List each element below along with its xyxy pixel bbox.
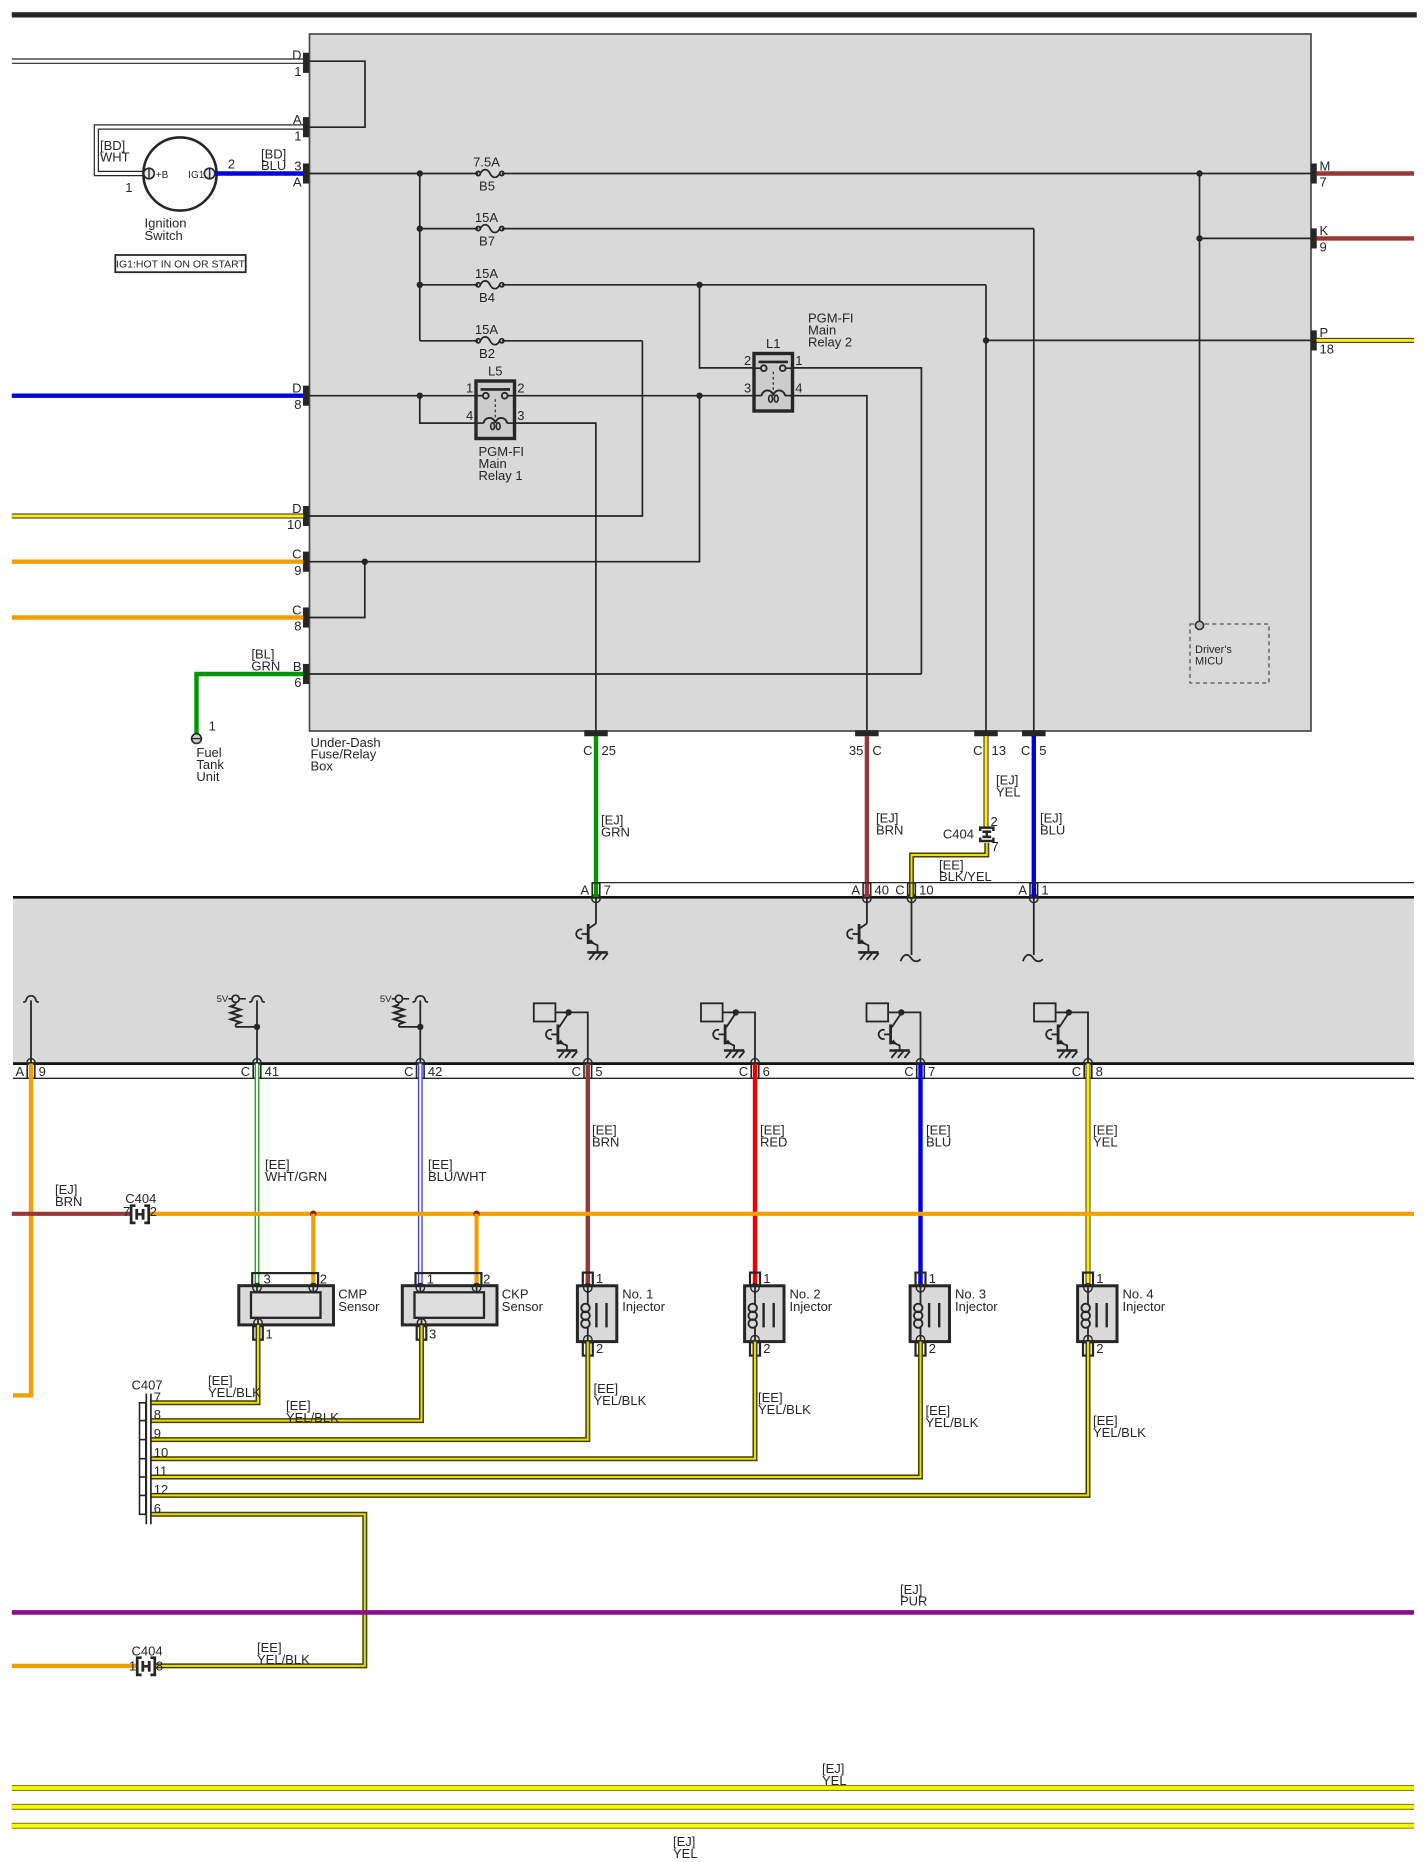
svg-text:B4: B4 <box>479 290 495 305</box>
label [EE] RED <box>760 1123 787 1150</box>
wire (K row) <box>1200 237 1312 239</box>
CMP sensor bottom pin 1 <box>253 1326 273 1341</box>
svg-text:10: 10 <box>287 517 301 532</box>
ignition switch body <box>143 137 216 210</box>
svg-text:1: 1 <box>266 1327 273 1342</box>
svg-text:YEL: YEL <box>673 1846 698 1861</box>
wire 35C brown (EJ BRN) <box>865 736 869 883</box>
wire D10 yellow <box>12 514 303 519</box>
resistor (pull-up, C41) <box>231 1003 241 1027</box>
label [EJ] BLU <box>1040 810 1065 837</box>
node junction (bus row3) <box>417 282 423 288</box>
svg-text:Sensor: Sensor <box>338 1299 380 1314</box>
svg-text:1: 1 <box>763 1271 770 1286</box>
svg-text:4: 4 <box>466 408 473 423</box>
svg-text:Injector: Injector <box>790 1299 833 1314</box>
svg-text:1: 1 <box>596 1271 603 1286</box>
injector No.2 top pin 1 <box>750 1271 770 1286</box>
label [EE] BLK/YEL <box>939 857 992 884</box>
wire (P row) <box>986 339 1311 341</box>
wire (B7 row) <box>420 228 478 230</box>
label [EE] YEL/BLK (CMP) <box>208 1373 261 1400</box>
svg-text:A: A <box>581 883 590 898</box>
svg-text:C: C <box>973 743 982 758</box>
relay L5 caption <box>479 444 525 483</box>
injector No.4 top pin 1 <box>1083 1271 1103 1286</box>
connector pin C13 (fuse box bottom) <box>973 731 1006 759</box>
svg-text:C: C <box>404 1064 413 1079</box>
connector C404 (bottom, inline) <box>129 1643 163 1675</box>
wire orange rail <box>149 1212 1414 1216</box>
label [EJ] BRN <box>876 810 903 837</box>
wire (A9 internal) <box>23 996 39 1063</box>
logic gate box (driver Q4) <box>701 1003 723 1021</box>
wire (C9 row to relay coil node) <box>309 396 700 562</box>
connector pin C8 (ECM/PCM bottom) <box>1072 1059 1103 1079</box>
wire C8 yellow (EE YEL) <box>1086 1064 1091 1287</box>
connector pin 3A (under-dash fuse/relay box) <box>293 158 309 189</box>
svg-text:YEL/BLK: YEL/BLK <box>1093 1425 1146 1440</box>
label [EE] YEL/BLK (bottom) <box>257 1640 310 1667</box>
connector pin C8 (under-dash fuse/relay box) <box>292 602 309 633</box>
svg-text:1: 1 <box>1096 1271 1103 1286</box>
node junction (MICU column K row) <box>1196 235 1202 241</box>
connector pin C9 (under-dash fuse/relay box) <box>292 547 309 578</box>
wire EJ YEL rail 3 <box>12 1823 1414 1829</box>
ground <box>858 952 879 959</box>
svg-text:2: 2 <box>150 1204 157 1219</box>
wire (B6 row) <box>309 673 922 675</box>
label [EE] YEL/BLK (inj2) <box>758 1390 811 1417</box>
svg-text:C: C <box>572 1064 581 1079</box>
wire EJ PUR purple <box>12 1610 1414 1615</box>
IG1 note box <box>115 255 245 272</box>
injector No.2 body <box>745 1284 784 1344</box>
wire (B4 row) <box>420 284 478 286</box>
label [EJ] YEL (lower) <box>673 1834 698 1861</box>
connector pin A40 (ECM/PCM top) <box>851 883 889 903</box>
wire (ECM internal from pin down) <box>595 898 597 923</box>
svg-text:A: A <box>1018 883 1027 898</box>
wire (resistor to pin C41) <box>236 1026 257 1028</box>
wire injector3 pin2 YEL/BLK to C407 pin11 <box>152 1342 921 1477</box>
wire (C13 column) <box>985 285 987 731</box>
wire (B7 to fuse box pin C5 column) <box>1033 229 1035 731</box>
transistor Q4 (injector driver NPN) <box>713 1013 736 1050</box>
svg-text:6: 6 <box>763 1064 770 1079</box>
svg-text:BLU/WHT: BLU/WHT <box>428 1169 487 1184</box>
svg-text:1: 1 <box>294 128 301 143</box>
label [EE] YEL/BLK (inj1) <box>594 1381 647 1408</box>
svg-text:6: 6 <box>154 1501 161 1516</box>
svg-text:YEL/BLK: YEL/BLK <box>594 1393 647 1408</box>
wire C13 yellow (EJ YEL) <box>984 736 989 828</box>
connector pin A9 (ECM/PCM bottom) <box>16 1059 46 1079</box>
wire CKP pin3 YEL/BLK to C407 pin8 <box>152 1325 422 1420</box>
wire (B2 row) <box>420 340 478 342</box>
svg-text:1: 1 <box>795 353 802 368</box>
svg-text:1: 1 <box>1041 883 1048 898</box>
wire C404 to C10 (EE BLK/YEL) <box>912 843 987 883</box>
svg-text:7: 7 <box>1320 175 1327 190</box>
svg-text:Injector: Injector <box>1123 1299 1166 1314</box>
svg-text:C: C <box>1072 1064 1081 1079</box>
svg-text:YEL: YEL <box>996 784 1021 799</box>
injector No.4 bottom pin 2 <box>1083 1341 1103 1356</box>
wire C8 orange <box>12 615 303 619</box>
node junction (C42) <box>417 1024 423 1030</box>
svg-text:BLU: BLU <box>1040 822 1065 837</box>
connector pin C25 (fuse box bottom) <box>583 731 616 759</box>
svg-text:YEL/BLK: YEL/BLK <box>286 1410 339 1425</box>
wire orange drop to CKP pin2 <box>475 1214 479 1286</box>
CKP sensor connector bracket <box>416 1273 482 1286</box>
svg-text:Switch: Switch <box>145 228 183 243</box>
node junction (CKP tap) <box>473 1211 480 1218</box>
wire EJ YEL rail 1 <box>12 1785 1414 1791</box>
connector C407 <box>132 1377 169 1524</box>
connector C404 (top, inline) <box>943 814 999 854</box>
svg-text:15A: 15A <box>475 210 498 225</box>
ECM bottom connector strip line <box>13 1077 1414 1079</box>
svg-text:C: C <box>241 1064 250 1079</box>
fuse B7 15A <box>475 210 504 249</box>
node junction (Q5) <box>898 1009 904 1015</box>
svg-text:A: A <box>851 883 860 898</box>
svg-text:GRN: GRN <box>251 659 280 674</box>
ECM top connector strip line <box>592 882 1414 884</box>
svg-text:1: 1 <box>294 64 301 79</box>
svg-text:L5: L5 <box>488 364 502 379</box>
svg-text:11: 11 <box>154 1464 168 1479</box>
svg-text:BRN: BRN <box>592 1135 619 1150</box>
node junction (bus row2) <box>417 225 423 231</box>
wire (B4 branch down to L1 pin2) <box>700 285 755 368</box>
transistor Q2 (A40 relay driver) (NPN driver) <box>847 924 868 953</box>
logic gate box (driver Q6) <box>1034 1003 1056 1021</box>
wire K9 red (to right) <box>1317 236 1415 240</box>
CKP sensor bottom pin 3 <box>417 1326 437 1341</box>
svg-text:WHT: WHT <box>100 150 130 165</box>
wire C41 white/green (EE WHT/GRN) <box>255 1064 260 1286</box>
svg-text:13: 13 <box>992 743 1006 758</box>
connector C404 (middle, inline) <box>123 1191 157 1223</box>
node junction (MICU column tap row1) <box>1196 170 1202 176</box>
label [EE] BRN <box>592 1123 619 1150</box>
wire C6 red (EE RED) <box>753 1064 757 1287</box>
svg-text:C: C <box>872 743 881 758</box>
wire D8 blue <box>12 394 303 398</box>
Driver's MICU terminal circle <box>1195 621 1203 629</box>
wire (gate to node) <box>1056 1011 1069 1013</box>
svg-text:8: 8 <box>294 619 301 634</box>
connector pin 35C (fuse box bottom) <box>849 731 882 759</box>
connector pin C41 (ECM/PCM bottom) <box>241 1059 279 1079</box>
wire (D8 row to relay L5 pin1) <box>309 395 476 397</box>
svg-text:C: C <box>904 1064 913 1079</box>
wire orange drop to CMP pin2 <box>311 1214 315 1286</box>
CMP sensor connector bracket <box>252 1273 318 1286</box>
svg-text:5: 5 <box>1039 743 1046 758</box>
wire EJ YEL rail 2 <box>12 1804 1414 1810</box>
connector pin A7 (ECM/PCM top) <box>581 883 611 903</box>
node junction (B4 to relay2 tap) <box>696 282 702 288</box>
ECM/PCM band <box>13 897 1414 1063</box>
wire (ECM internal from pin down) <box>866 898 868 923</box>
wire (resistor to pin C42) <box>399 1026 420 1028</box>
wire B6 green (BL GRN) <box>197 674 304 734</box>
svg-text:3: 3 <box>744 381 751 396</box>
ECM/PCM top edge <box>13 896 1414 899</box>
wire (L1 pin1 to B6 column) <box>791 368 922 674</box>
svg-text:A: A <box>293 175 302 190</box>
svg-text:IG1:HOT IN ON OR START: IG1:HOT IN ON OR START <box>116 258 246 270</box>
node junction (Q4) <box>733 1009 739 1015</box>
svg-text:Box: Box <box>311 758 334 773</box>
svg-text:YEL/BLK: YEL/BLK <box>926 1415 979 1430</box>
svg-text:9: 9 <box>1320 240 1327 255</box>
svg-text:9: 9 <box>39 1064 46 1079</box>
svg-text:10: 10 <box>154 1445 168 1460</box>
injector No.3 body <box>910 1284 949 1344</box>
svg-text:C: C <box>292 547 301 562</box>
connector pin A1 (ECM/PCM top) <box>1018 883 1048 903</box>
svg-text:BLU: BLU <box>926 1135 951 1150</box>
svg-text:12: 12 <box>154 1482 168 1497</box>
ground (Q6 emitter) <box>1057 1051 1078 1058</box>
node junction (relay row C9 tap) <box>696 393 702 399</box>
svg-text:D: D <box>292 381 301 396</box>
svg-text:B: B <box>293 659 302 674</box>
fuel tank unit terminal <box>192 734 202 744</box>
fuse B4 15A <box>475 266 504 305</box>
injector No.4 body <box>1078 1284 1117 1344</box>
label [EE] WHT/GRN <box>265 1157 327 1184</box>
CKP sensor label <box>502 1287 544 1314</box>
svg-text:C: C <box>739 1064 748 1079</box>
wire C5 brown (EE BRN) <box>586 1064 590 1287</box>
node junction (D8 bus) <box>417 393 423 399</box>
wire (internal C42 pin) <box>413 996 429 1063</box>
svg-text:8: 8 <box>156 1659 163 1674</box>
page top border bar <box>12 12 1417 17</box>
svg-text:2: 2 <box>596 1341 603 1356</box>
svg-text:Sensor: Sensor <box>502 1299 544 1314</box>
Under-Dash Fuse/Relay Box label <box>311 735 381 774</box>
injector No.2 bottom pin 2 <box>750 1341 770 1356</box>
connector pin M7 (fuse box right side) <box>1311 158 1330 189</box>
svg-text:RED: RED <box>760 1135 787 1150</box>
wire CMP pin1 YEL/BLK to C407 pin7 <box>152 1325 259 1403</box>
svg-text:10: 10 <box>919 883 933 898</box>
svg-text:+B: +B <box>156 170 169 181</box>
connector pin C42 (ECM/PCM bottom) <box>404 1059 442 1079</box>
resistor (pull-up, C42) <box>394 1003 404 1027</box>
wire D1 white (BD WHT) <box>12 59 303 63</box>
ignition switch label <box>145 216 187 243</box>
svg-text:1: 1 <box>466 381 473 396</box>
wire EJ BRN horizontal <box>12 1212 131 1216</box>
wire (MICU column) <box>1199 174 1201 622</box>
svg-text:15A: 15A <box>475 266 498 281</box>
connector pin B6 (under-dash fuse/relay box) <box>293 659 309 690</box>
svg-text:2: 2 <box>744 353 751 368</box>
fuse B5 7.5A <box>473 155 504 194</box>
wire (ignition feed row to fuse B5 and pin M7) <box>309 173 479 175</box>
wire A9 orange <box>13 1064 31 1396</box>
svg-text:9: 9 <box>294 563 301 578</box>
wire M7 red (to right) <box>1317 171 1415 175</box>
wire C25 green (EJ GRN) <box>594 736 598 883</box>
Driver's MICU dashed box <box>1190 624 1269 683</box>
wire (L1 coil pin4 to 35C column) <box>791 396 867 731</box>
svg-text:Driver's: Driver's <box>1195 644 1232 656</box>
logic gate box (driver Q3) <box>534 1003 556 1021</box>
svg-text:18: 18 <box>1320 342 1334 357</box>
connector pin D8 (under-dash fuse/relay box) <box>292 381 309 412</box>
connector pin C5 (ECM/PCM bottom) <box>572 1059 603 1079</box>
svg-text:8: 8 <box>1096 1064 1103 1079</box>
svg-text:C: C <box>895 883 904 898</box>
node junction (P row tap) <box>983 337 989 343</box>
svg-text:YEL/BLK: YEL/BLK <box>208 1385 261 1400</box>
label [EE] YEL <box>1093 1123 1118 1150</box>
svg-text:35: 35 <box>849 743 863 758</box>
svg-text:7: 7 <box>604 883 611 898</box>
svg-text:YEL: YEL <box>822 1773 847 1788</box>
svg-text:IG1: IG1 <box>188 170 205 181</box>
Under-Dash Fuse/Relay Box <box>310 34 1312 731</box>
injector No.3 label <box>955 1287 998 1314</box>
wire A1 white loop (BD WHT) to ignition +B <box>94 125 303 176</box>
svg-text:PUR: PUR <box>900 1594 927 1609</box>
wire P18 yellow (to right) <box>1317 338 1415 343</box>
label [EJ] YEL (upper) <box>822 1761 847 1788</box>
svg-text:1: 1 <box>929 1271 936 1286</box>
label [BD] BLU <box>261 146 286 173</box>
svg-text:BRN: BRN <box>876 822 903 837</box>
svg-text:5: 5 <box>595 1064 602 1079</box>
svg-text:YEL/BLK: YEL/BLK <box>257 1652 310 1667</box>
svg-text:BLK/YEL: BLK/YEL <box>939 869 992 884</box>
svg-text:BRN: BRN <box>55 1194 82 1209</box>
wire C407 pin6 YEL/BLK to C404 <box>152 1514 365 1666</box>
wire C7 blue (EE BLU) <box>918 1064 922 1287</box>
wire C9 orange <box>12 560 303 564</box>
wire C10 blkyel pin crossing <box>909 884 914 897</box>
CKP sensor body <box>402 1284 497 1328</box>
wire (A1 internal) <box>1023 898 1043 961</box>
svg-text:2: 2 <box>517 381 524 396</box>
transistor Q1 (A7 relay driver) (NPN driver) <box>576 924 597 953</box>
svg-text:7: 7 <box>992 839 999 854</box>
svg-text:WHT/GRN: WHT/GRN <box>265 1169 327 1184</box>
node junction (bus tap row1) <box>417 170 423 176</box>
svg-text:7: 7 <box>928 1064 935 1079</box>
wire injector2 pin2 YEL/BLK to C407 pin10 <box>152 1342 756 1459</box>
injector No.1 body <box>577 1284 616 1344</box>
wire (L5 pin2 to L1 pin3 row) <box>515 395 755 397</box>
svg-text:25: 25 <box>602 743 616 758</box>
injector No.3 bottom pin 2 <box>916 1341 936 1356</box>
connector pin K9 (fuse box right side) <box>1311 223 1329 254</box>
injector No.1 label <box>622 1287 665 1314</box>
svg-text:B7: B7 <box>479 234 495 249</box>
wire C42 blue/white (EE BLU/WHT) <box>418 1064 423 1286</box>
label [EJ] PUR <box>900 1582 927 1609</box>
node junction (C8/C9 merge) <box>362 559 368 565</box>
svg-text:Injector: Injector <box>955 1299 998 1314</box>
wire A7 green pin crossing <box>594 884 598 897</box>
wire (gate to node) <box>888 1011 901 1013</box>
svg-text:Relay 1: Relay 1 <box>479 468 523 483</box>
svg-text:C404: C404 <box>132 1643 163 1658</box>
ignition switch terminal 2 (IG1) <box>188 168 215 181</box>
wire 2-IG1 blue (BD BLU) <box>215 171 303 175</box>
wire (gate to node) <box>723 1011 736 1013</box>
relay L5 PGM-FI main relay <box>466 364 525 439</box>
injector No.1 top pin 1 <box>583 1271 603 1286</box>
svg-text:1: 1 <box>125 180 132 195</box>
connector pin C7 (ECM/PCM bottom) <box>904 1059 935 1079</box>
svg-text:41: 41 <box>265 1064 279 1079</box>
Fuel Tank Unit label <box>196 745 224 784</box>
svg-text:B2: B2 <box>479 346 495 361</box>
wire (node to pin Q5) <box>901 1012 920 1062</box>
svg-text:D: D <box>292 48 301 63</box>
ground (Q3 emitter) <box>557 1051 578 1058</box>
svg-text:BLU: BLU <box>261 158 286 173</box>
node junction (Q6) <box>1066 1009 1072 1015</box>
wire C5 blue (EJ BLU) <box>1032 736 1036 883</box>
svg-text:8: 8 <box>154 1407 161 1422</box>
svg-text:C: C <box>1021 743 1030 758</box>
connector pin D10 (under-dash fuse/relay box) <box>287 501 309 532</box>
wire (C8 row) <box>309 562 365 618</box>
svg-text:MICU: MICU <box>1195 655 1223 667</box>
svg-text:YEL: YEL <box>1093 1135 1118 1150</box>
ground (Q4 emitter) <box>724 1051 745 1058</box>
wire (C10 internal) <box>901 898 921 961</box>
wire injector1 pin2 YEL/BLK to C407 pin9 <box>152 1342 588 1440</box>
injector No.1 bottom pin 2 <box>583 1341 603 1356</box>
svg-text:2: 2 <box>228 157 235 172</box>
svg-text:3: 3 <box>517 408 524 423</box>
svg-text:2: 2 <box>929 1341 936 1356</box>
5V supply node (C42) <box>380 994 409 1005</box>
wire (node to pin Q6) <box>1069 1012 1088 1062</box>
CMP sensor body <box>239 1284 334 1328</box>
svg-text:40: 40 <box>875 883 889 898</box>
5V supply node (C41) <box>217 994 246 1005</box>
label [BL] GRN <box>251 647 280 674</box>
fuse B2 15A <box>475 322 504 361</box>
wire (gate to node) <box>555 1011 568 1013</box>
injector No.3 top pin 1 <box>916 1271 936 1286</box>
svg-text:Injector: Injector <box>622 1299 665 1314</box>
svg-text:8: 8 <box>294 397 301 412</box>
label [BD] WHT <box>100 138 130 164</box>
label [EE] BLU/WHT <box>428 1157 487 1184</box>
svg-text:K: K <box>1320 223 1329 238</box>
svg-text:42: 42 <box>428 1064 442 1079</box>
svg-text:A: A <box>16 1064 25 1079</box>
connector pin C6 (ECM/PCM bottom) <box>739 1059 770 1079</box>
ECM/PCM bottom edge <box>13 1062 1414 1065</box>
svg-text:7: 7 <box>123 1204 130 1219</box>
wire (bus to L5 coil pin4) <box>420 396 476 423</box>
svg-text:4: 4 <box>795 381 802 396</box>
